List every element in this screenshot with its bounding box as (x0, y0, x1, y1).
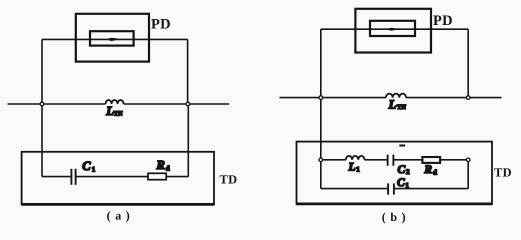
arrester dart symbol (b) (386, 28, 399, 31)
wire: (b) top branch segment 3 (393, 159, 422, 161)
inductor LTN (a) (106, 100, 124, 104)
capacitor C1 (b) (388, 183, 394, 194)
svg-text:L: L (348, 161, 356, 173)
svg-text:2: 2 (406, 168, 410, 176)
svg-text:( b ): ( b ) (382, 210, 407, 224)
label L1 (b) (348, 161, 361, 173)
svg-text:C: C (397, 177, 405, 189)
capacitor C1 (a) (71, 169, 75, 185)
wire: (a) right riser from PD (187, 39, 189, 104)
svg-text:d: d (166, 165, 170, 173)
node: (b) TD right junction (466, 158, 470, 162)
svg-text:( a ): ( a ) (107, 208, 131, 222)
wire: figure (a) main line right segment (124, 103, 229, 105)
wire: (b) top branch segment 4 (440, 159, 468, 161)
protector TD box (a) (22, 152, 214, 204)
wire: (a) right drop into TD (187, 104, 189, 177)
wire: figure (b) main line left segment (280, 97, 387, 99)
label LTN (b) (388, 97, 407, 111)
wire: (b) bottom branch left (321, 188, 387, 190)
wire: figure (a) main line left segment (8, 103, 106, 105)
arrester dart symbol (a) (106, 38, 120, 41)
wire: (b) top branch segment 2 (365, 159, 387, 161)
node: (b) TD left junction (319, 158, 323, 162)
svg-text:1: 1 (356, 166, 360, 174)
wire: (b) top branch segment 1 (321, 159, 346, 161)
capacitor C2 (b) (388, 155, 394, 166)
resistor Rd (a) (148, 173, 166, 179)
wire: (b) right drop in TD (467, 160, 469, 189)
artifact dash near TD top (b) (399, 145, 405, 147)
node: (a) left junction (40, 102, 44, 106)
wire: (b) right riser from PD (467, 29, 469, 97)
protector TD box (a) thick bottom edge (21, 203, 214, 206)
surge arrester PD outer box (b) (355, 9, 431, 53)
svg-text:C: C (398, 164, 406, 176)
inductor L1 (b) (346, 156, 365, 160)
svg-text:R: R (156, 158, 165, 172)
wire: (b) left drop into TD (320, 98, 322, 189)
wire: (a) left drop into TD (41, 104, 43, 177)
surge arrester PD inner box (a) (90, 31, 134, 45)
protector TD box (b) (297, 142, 493, 204)
svg-text:TN: TN (397, 104, 406, 111)
wire: (a) PD through-line (42, 38, 188, 40)
label Rd (a) (156, 158, 170, 173)
surge arrester PD inner box (b) (370, 21, 415, 36)
svg-text:R: R (423, 164, 432, 176)
svg-text:C: C (82, 159, 91, 173)
svg-text:PD: PD (151, 17, 171, 33)
surge arrester PD outer box (a) (76, 14, 149, 62)
wire: (b) bottom branch right (394, 188, 468, 190)
label C1 (b) (397, 177, 409, 189)
wire: (a) TD branch middle (76, 176, 148, 178)
label Rd (b) (423, 164, 437, 176)
inductor LTN (b) (386, 94, 406, 98)
svg-text:TN: TN (114, 111, 123, 118)
node: (b) main line left junction (319, 96, 323, 100)
wire: (a) TD branch left (42, 176, 70, 178)
node: (a) right junction (186, 102, 190, 106)
svg-text:TD: TD (220, 172, 238, 186)
svg-text:1: 1 (92, 166, 96, 174)
label C2 (b) (398, 164, 411, 176)
svg-text:d: d (433, 168, 437, 176)
wire: (b) PD through-line (321, 28, 468, 30)
wire: (a) TD branch right (166, 176, 188, 178)
wire: (b) left riser to PD (320, 29, 322, 97)
svg-text:PD: PD (433, 13, 453, 29)
svg-text:L: L (388, 97, 397, 111)
svg-text:TD: TD (494, 165, 512, 179)
resistor Rd (b) (422, 157, 440, 163)
wire: (a) left riser to PD (41, 39, 43, 104)
label C1 (a) (82, 159, 96, 174)
wire: figure (b) main line right segment (406, 97, 502, 99)
label LTN (a) (105, 104, 123, 118)
node: (b) main line right junction (466, 96, 470, 100)
protector TD box (b) thick bottom edge (296, 202, 492, 205)
